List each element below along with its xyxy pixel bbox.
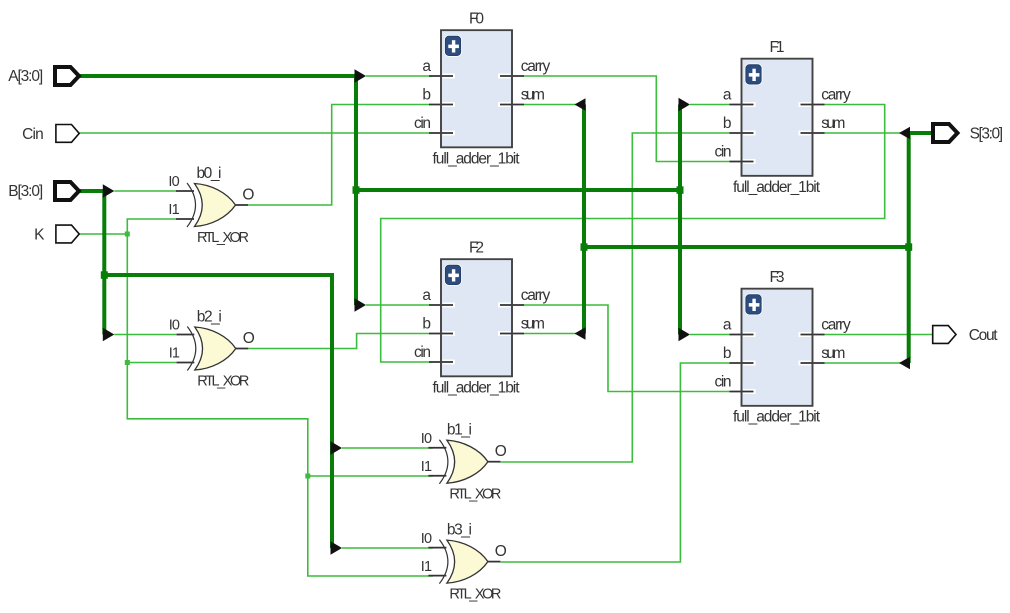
svg-text:0: 0 (172, 318, 180, 334)
svg-text:1: 1 (424, 559, 432, 575)
svg-text:O: O (243, 330, 255, 347)
svg-text:RTL_XOR: RTL_XOR (197, 230, 249, 246)
svg-text:full_adder_1bit: full_adder_1bit (733, 409, 821, 426)
svg-text:cin: cin (715, 144, 732, 161)
svg-text:carry: carry (821, 87, 851, 104)
svg-text:b: b (422, 316, 431, 333)
svg-text:carry: carry (521, 58, 551, 75)
svg-text:sum: sum (821, 115, 845, 132)
svg-text:full_adder_1bit: full_adder_1bit (733, 179, 821, 196)
svg-text:F3: F3 (770, 269, 785, 286)
svg-text:F0: F0 (469, 11, 484, 28)
svg-text:RTL_XOR: RTL_XOR (449, 487, 501, 503)
svg-text:0: 0 (424, 531, 432, 547)
svg-text:b1_i: b1_i (447, 422, 472, 439)
svg-text:full_adder_1bit: full_adder_1bit (433, 151, 521, 168)
svg-text:O: O (495, 443, 507, 460)
svg-text:Cout: Cout (969, 327, 998, 344)
svg-text:S[3:0]: S[3:0] (970, 126, 1003, 143)
svg-text:Cin: Cin (22, 126, 44, 143)
svg-text:b: b (723, 345, 732, 362)
svg-text:0: 0 (424, 431, 432, 447)
svg-text:cin: cin (414, 115, 431, 132)
svg-text:K: K (34, 227, 45, 244)
svg-text:a: a (723, 87, 732, 104)
svg-text:B[3:0]: B[3:0] (8, 183, 43, 200)
svg-text:sum: sum (521, 316, 545, 333)
svg-text:A[3:0]: A[3:0] (8, 68, 43, 85)
svg-text:b2_i: b2_i (197, 308, 222, 325)
svg-text:0: 0 (172, 174, 180, 190)
svg-text:full_adder_1bit: full_adder_1bit (433, 380, 521, 397)
svg-text:a: a (723, 317, 732, 334)
svg-text:1: 1 (172, 346, 180, 362)
svg-text:b: b (422, 87, 431, 104)
svg-text:F1: F1 (770, 39, 785, 56)
svg-text:O: O (242, 187, 254, 204)
svg-text:F2: F2 (469, 240, 484, 257)
svg-text:O: O (495, 543, 507, 560)
svg-text:b3_i: b3_i (447, 521, 472, 538)
svg-text:1: 1 (172, 202, 180, 218)
svg-text:b: b (723, 115, 732, 132)
svg-text:sum: sum (521, 87, 545, 104)
svg-text:a: a (422, 287, 431, 304)
svg-text:carry: carry (821, 317, 851, 334)
svg-text:carry: carry (521, 287, 551, 304)
svg-text:RTL_XOR: RTL_XOR (197, 374, 249, 390)
svg-text:cin: cin (414, 344, 431, 361)
svg-text:1: 1 (424, 459, 432, 475)
svg-text:cin: cin (715, 374, 732, 391)
svg-text:b0_i: b0_i (197, 165, 222, 182)
svg-text:a: a (422, 58, 431, 75)
svg-text:RTL_XOR: RTL_XOR (449, 587, 501, 603)
svg-text:sum: sum (821, 345, 845, 362)
